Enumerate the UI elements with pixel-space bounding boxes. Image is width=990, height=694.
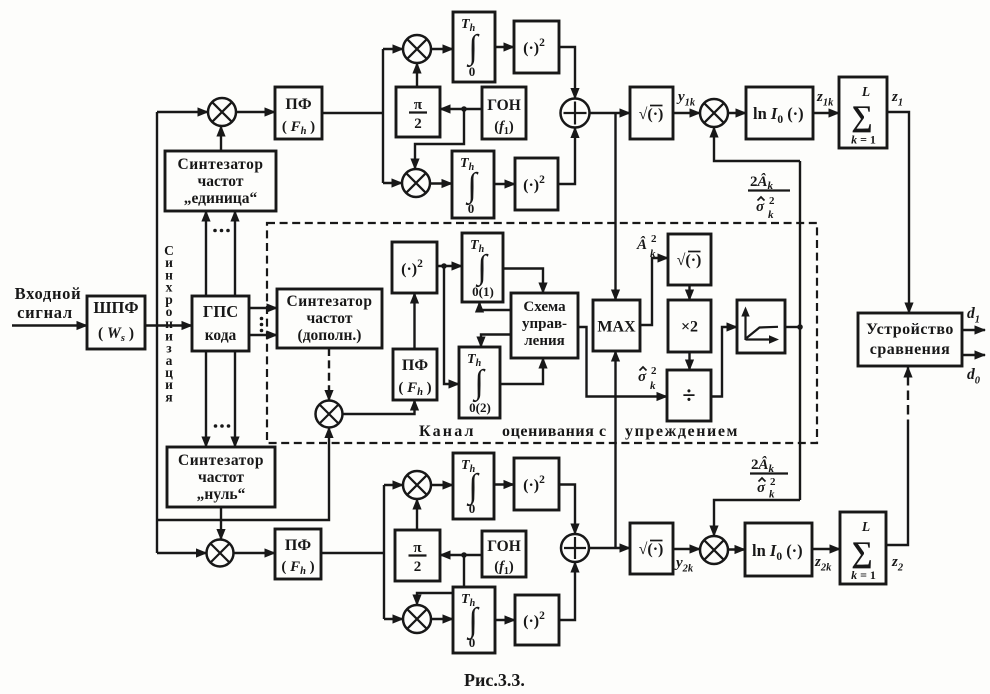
block integrator Th bot2 <box>453 587 495 653</box>
svg-text:y2k: y2k <box>674 555 694 575</box>
block π/2 top <box>396 87 440 137</box>
wire gain to M8 <box>714 127 800 161</box>
svg-text:2Âk: 2Âk <box>750 173 774 192</box>
svg-text:×2: ×2 <box>681 319 698 336</box>
svg-text:Синтезатор: Синтезатор <box>178 452 264 469</box>
wire quad top vertical <box>382 49 384 183</box>
svg-text:„нуль“: „нуль“ <box>197 486 246 503</box>
wire output d1 <box>962 329 985 331</box>
svg-text:ПФ: ПФ <box>285 537 311 554</box>
svg-text:„единица“: „единица“ <box>184 190 258 207</box>
junction squarer mid <box>441 263 447 269</box>
svg-text:с: с <box>599 423 606 440</box>
wire lnI0 to Σ1 <box>813 112 839 114</box>
wire ГПС to synth-dop b <box>249 334 277 336</box>
svg-text:k: k <box>769 489 775 501</box>
wire Th(2) to Схема <box>500 358 543 384</box>
block π/2 bottom <box>395 530 440 581</box>
wire ГПС down a <box>205 351 207 447</box>
multiplier M9 <box>700 536 728 564</box>
svg-text:2Âk: 2Âk <box>751 456 775 475</box>
wire lnI0 to Σ2 <box>812 548 840 550</box>
svg-text:π: π <box>414 97 423 113</box>
wire Схема to Th(1) <box>480 302 512 310</box>
adder A2 <box>561 534 589 562</box>
block divider <box>667 370 711 421</box>
wire M7 to Th <box>431 618 453 620</box>
wire input to ШПФ <box>12 324 87 326</box>
svg-text:2: 2 <box>414 559 422 575</box>
wire squarer t2 to adder A1 <box>558 128 575 185</box>
wire synth-dop to M4 dashed <box>328 348 330 401</box>
svg-text:z1k: z1k <box>816 89 834 109</box>
block ГОН top <box>482 87 526 139</box>
multiplier M7 <box>403 605 431 633</box>
svg-text:k: k <box>768 209 774 221</box>
wire divider to limiter <box>711 327 737 397</box>
svg-text:∑: ∑ <box>851 536 872 569</box>
wire ГПС down b <box>234 351 236 447</box>
wire A2 to sqrt bottom <box>589 547 630 549</box>
svg-text:σ: σ <box>756 199 765 215</box>
wire M6 to Th <box>431 484 453 486</box>
multiplier M4 <box>316 401 343 428</box>
svg-text:частот: частот <box>307 310 353 327</box>
svg-text:Рис.3.3.: Рис.3.3. <box>464 670 525 690</box>
wire ГОН branch to M3 <box>415 109 464 169</box>
block squarer top1 <box>514 21 559 73</box>
svg-text:z2k: z2k <box>814 554 832 574</box>
label sigma2k estimate <box>638 365 657 392</box>
wire ПФ bottom out <box>321 552 384 554</box>
wire squarer mid to Th(1) <box>437 265 462 267</box>
junction limiter out <box>797 324 803 330</box>
wire ГОН to π/2 bottom <box>440 554 482 556</box>
svg-text:2: 2 <box>651 365 657 377</box>
block ПФ top <box>275 87 322 139</box>
svg-text:сравнения: сравнения <box>870 341 951 358</box>
block ГПС кода <box>192 296 249 351</box>
svg-text:k = 1: k = 1 <box>851 568 876 582</box>
svg-text:0(1): 0(1) <box>472 284 494 299</box>
wire sqrt top to M8 <box>673 112 700 114</box>
svg-text:упреждением: упреждением <box>625 423 739 440</box>
block ПФ bottom <box>275 529 321 579</box>
block integrator Th bot1 <box>453 453 494 519</box>
wire ГОН branch to M7 <box>417 555 464 605</box>
wire Схема to divider <box>578 327 667 397</box>
svg-text:L: L <box>861 519 870 534</box>
block ГОН bottom <box>482 531 526 577</box>
svg-text:частот: частот <box>198 469 244 486</box>
svg-text:( Fh ): ( Fh ) <box>281 559 314 577</box>
svg-text:z1: z1 <box>891 89 903 109</box>
wire A1 to sqrt top <box>590 112 631 114</box>
svg-text:0: 0 <box>469 64 476 79</box>
wire ПФ mid to squarer mid <box>413 293 415 349</box>
wire M3 to Th <box>430 182 452 184</box>
wire Th to squarer t1 <box>495 46 514 48</box>
wire squarer b1 to adder A2 <box>559 485 575 535</box>
svg-text:ГОН: ГОН <box>487 538 521 555</box>
svg-text:Входной: Входной <box>15 284 82 303</box>
block squarer bot1 <box>514 458 559 510</box>
svg-text:управ-: управ- <box>522 316 567 332</box>
junction ГОН top <box>461 106 467 112</box>
wire ГПС up b <box>234 211 236 296</box>
svg-text:0: 0 <box>469 635 476 650</box>
svg-text:Â: Â <box>636 236 647 253</box>
svg-text:√(·): √(·) <box>639 106 664 123</box>
svg-text:( Fh ): ( Fh ) <box>282 119 315 137</box>
block ПФ mid <box>393 349 437 400</box>
svg-text:σ: σ <box>757 480 766 496</box>
wire squarer mid branch to Th(2) <box>444 266 459 384</box>
label Канал оценивания с упреждением <box>419 423 739 440</box>
wire squarer t1 to adder A1 <box>559 47 575 99</box>
wire π/2 to M2 <box>416 63 418 87</box>
block x2 <box>668 300 711 352</box>
wire ГОН to π/2 <box>440 108 482 110</box>
wire sync to multiplier M4 <box>157 428 329 521</box>
svg-text:d0: d0 <box>967 366 981 387</box>
wire sync vertical bus <box>156 112 158 553</box>
wire Th to squarer b2 <box>495 619 515 621</box>
multiplier M5 <box>207 540 234 567</box>
wire M9 to lnI0 bottom <box>728 548 745 550</box>
wire synth-one to M1 <box>220 126 222 151</box>
svg-text:L: L <box>861 84 870 99</box>
block lnI0 bottom <box>745 523 812 576</box>
block integrator Th(2) <box>459 347 500 418</box>
wire MAX to sqrt-est <box>640 258 668 325</box>
svg-text:Синтезатор: Синтезатор <box>178 156 264 173</box>
block integrator Th(1) <box>462 233 503 302</box>
label Входной сигнал <box>15 284 82 322</box>
multiplier M1 <box>208 98 236 126</box>
wire squarer b2 to adder A2 <box>559 562 575 620</box>
wire M4 to ПФ mid <box>343 400 415 414</box>
svg-text:∑: ∑ <box>851 100 872 133</box>
svg-text:k: k <box>650 380 656 392</box>
wire sync to multiplier M5 <box>157 552 207 554</box>
svg-text:( Ws ): ( Ws ) <box>98 325 134 344</box>
multiplier M2 <box>403 35 431 63</box>
label A2k estimate <box>636 233 657 260</box>
label ellipsis top pair <box>213 229 230 233</box>
svg-text:0: 0 <box>469 501 476 516</box>
wire sqrt-est to x2 <box>688 285 690 300</box>
block sqrt estimator <box>668 234 711 285</box>
wire M5 to ПФ bottom <box>234 552 275 554</box>
label ellipsis bottom pair <box>214 424 231 428</box>
dashed estimation-channel box <box>267 223 817 443</box>
wire M2 to Th <box>431 48 453 50</box>
wire to M2 <box>383 48 403 50</box>
wire Схема to Th(2) <box>481 335 511 348</box>
svg-text:√(·): √(·) <box>677 252 702 269</box>
multiplier M6 <box>403 471 431 499</box>
block synthesizer zero <box>167 447 275 507</box>
wire gain vertical bus <box>799 161 801 500</box>
wire to MAX bottom <box>614 351 616 548</box>
svg-text:частот: частот <box>198 173 244 190</box>
label gain fraction top <box>748 173 790 221</box>
wire x2 to divider <box>688 352 690 370</box>
block synthesizer dop <box>277 289 382 348</box>
wire gain to M9 <box>714 500 800 536</box>
svg-text:(дополн.): (дополн.) <box>298 327 362 344</box>
svg-text:k = 1: k = 1 <box>851 133 876 147</box>
svg-text:оценивания: оценивания <box>502 423 595 440</box>
wire quad bottom vertical <box>383 485 385 619</box>
wire synth-zero to M5 <box>220 507 222 540</box>
svg-text:Канал: Канал <box>419 423 476 440</box>
svg-text:π: π <box>413 540 422 556</box>
block synthesizer one <box>165 151 276 211</box>
svg-text:2: 2 <box>651 233 657 245</box>
svg-text:÷: ÷ <box>682 383 695 409</box>
block MAX <box>593 300 640 351</box>
svg-text:2: 2 <box>414 116 422 132</box>
svg-text:MAX: MAX <box>597 319 636 336</box>
wire Th to squarer b1 <box>494 483 514 485</box>
svg-text:Схема: Схема <box>523 299 566 315</box>
svg-text:ГОН: ГОН <box>487 97 521 114</box>
wire M8 to lnI0 <box>728 112 746 114</box>
wire limiter out <box>785 326 800 328</box>
wire to M6 <box>384 484 403 486</box>
wire sqrt bottom to M9 <box>673 548 700 550</box>
svg-text:k: k <box>650 248 656 260</box>
wire to M3 <box>383 182 402 184</box>
block comparator <box>858 313 962 366</box>
block integrator Th top2 <box>452 151 494 218</box>
svg-text:0(2): 0(2) <box>469 400 491 415</box>
svg-text:2: 2 <box>770 476 776 488</box>
adder A1 <box>561 99 590 128</box>
block squarer bot2 <box>515 595 559 645</box>
svg-text:0: 0 <box>468 201 475 216</box>
wire Th(1) to Схема <box>503 269 543 294</box>
svg-text:y1k: y1k <box>676 89 696 109</box>
block squarer top2 <box>515 158 558 210</box>
junction ГОН bottom <box>461 552 467 558</box>
svg-text:ления: ления <box>524 333 564 349</box>
svg-text:Синтезатор: Синтезатор <box>287 293 373 310</box>
block lnI0 top <box>746 87 813 139</box>
wire sync to multiplier M1 <box>157 111 208 113</box>
block sqrt top <box>630 87 673 139</box>
block integrator Th top1 <box>453 12 495 82</box>
wire π/2 to M6 <box>416 499 418 530</box>
wire ГПС to synth-dop a <box>249 307 277 309</box>
svg-text:σ: σ <box>638 369 647 385</box>
svg-text:ШПФ: ШПФ <box>93 298 138 317</box>
svg-text:√(·): √(·) <box>639 541 664 558</box>
wire ПФ top out <box>322 112 383 114</box>
wire ГПС up a <box>205 211 207 296</box>
wire M1 to ПФ top <box>236 111 275 113</box>
block Σ2 <box>840 512 886 584</box>
wire ШПФ to ГПС <box>145 324 192 326</box>
svg-text:d1: d1 <box>967 305 980 326</box>
wire to M7 <box>384 618 403 620</box>
block limiter <box>737 300 785 353</box>
svg-text:Устройство: Устройство <box>866 321 954 338</box>
block Схема управления <box>511 293 578 358</box>
block squarer mid <box>392 242 437 293</box>
svg-text:сигнал: сигнал <box>17 303 73 322</box>
svg-text:я: я <box>165 389 172 404</box>
svg-text:( Fh ): ( Fh ) <box>398 380 431 398</box>
svg-text:z2: z2 <box>891 554 904 574</box>
wire Σ1 to comparator <box>887 112 909 313</box>
svg-text:2: 2 <box>769 195 775 207</box>
svg-text:ПФ: ПФ <box>285 96 311 113</box>
block ШПФ (Ws) <box>87 296 145 349</box>
svg-text:ПФ: ПФ <box>402 357 428 374</box>
label vertical dots ГПС-dop <box>260 317 264 333</box>
label gain fraction bottom <box>750 456 788 501</box>
block Σ1 <box>839 77 887 148</box>
label Синхронизация vertical <box>164 243 174 404</box>
wire output d0 <box>962 354 985 356</box>
svg-text:ГПС: ГПС <box>203 302 238 321</box>
svg-text:кода: кода <box>205 327 237 344</box>
multiplier M3 <box>402 169 430 197</box>
block sqrt bottom <box>630 523 673 574</box>
wire Σ2 to comparator solid <box>886 429 908 545</box>
wire Th to squarer t2 <box>494 183 515 185</box>
multiplier M8 <box>700 99 728 127</box>
wire Σ2 to comparator dashed <box>907 367 909 429</box>
wire to MAX top <box>614 113 616 300</box>
